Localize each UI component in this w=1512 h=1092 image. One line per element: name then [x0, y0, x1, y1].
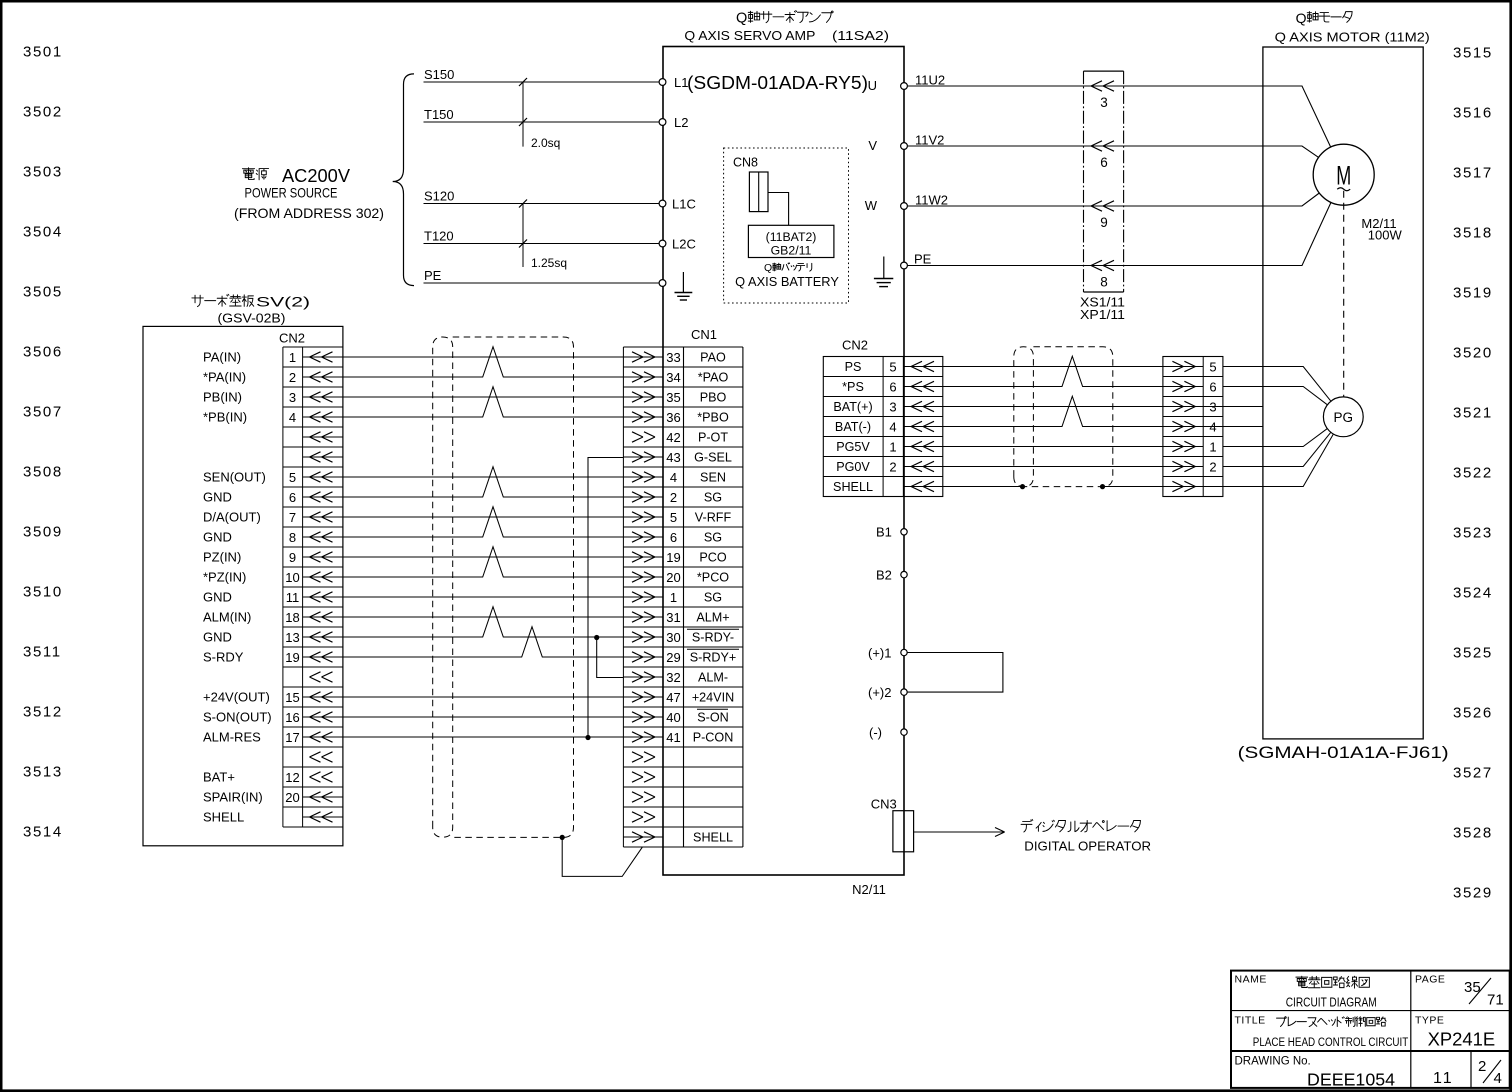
svg-text:DIGITAL OPERATOR: DIGITAL OPERATOR	[1024, 839, 1151, 854]
brace for power source wires	[393, 74, 414, 286]
svg-text:3513: 3513	[23, 764, 63, 781]
wire encoder 4 into motor	[1203, 426, 1263, 428]
wire D/A row	[343, 516, 624, 518]
wire W into motor	[1124, 193, 1320, 206]
svg-text:4: 4	[289, 410, 296, 425]
svg-text:3514: 3514	[23, 824, 63, 841]
svg-text:TYPE: TYPE	[1415, 1015, 1444, 1027]
svg-text:N2/11: N2/11	[852, 882, 886, 897]
terminal (-)	[869, 725, 907, 740]
svg-text:15: 15	[285, 690, 299, 705]
terminal B2	[876, 568, 907, 583]
wire GND/SG1 row	[343, 596, 624, 598]
svg-text:GB2/11: GB2/11	[771, 244, 812, 258]
svg-text:3: 3	[1100, 95, 1108, 110]
connector CN3	[871, 797, 914, 852]
svg-text:(-): (-)	[869, 725, 882, 740]
wire PG0V pin2 to encoder connector 2	[943, 466, 1163, 468]
svg-text:6: 6	[1100, 155, 1108, 170]
motor model (SGMAH-01A1A-FJ61)	[1238, 743, 1449, 762]
wire ALM- branch from GND row	[597, 638, 624, 678]
connector CN2 (encoder, servo side)	[823, 338, 943, 497]
battery dotted enclosure	[724, 148, 849, 303]
junction GND/ALM-	[594, 635, 599, 640]
terminal L2	[659, 115, 688, 130]
terminal PE / wire PE to connector XS1	[901, 252, 1084, 269]
wire ALM-RES/P-CON row	[343, 736, 624, 738]
svg-text:L2C: L2C	[672, 237, 696, 252]
wire S120 to servo amp	[424, 189, 660, 204]
svg-text:8: 8	[289, 530, 296, 545]
wire encoder 3 into motor	[1203, 406, 1263, 408]
wire SEN row	[343, 476, 624, 478]
svg-text:SG: SG	[704, 591, 722, 605]
svg-text:3: 3	[889, 399, 896, 414]
svg-text:BAT(+): BAT(+)	[833, 400, 872, 414]
svg-text:L2: L2	[674, 115, 688, 130]
svg-text:PG: PG	[1334, 410, 1354, 425]
wire S150 to servo amp	[424, 67, 660, 82]
title block	[1231, 971, 1510, 1090]
connector XS1/11-XP1/11	[1080, 71, 1125, 322]
svg-text:V-RFF: V-RFF	[695, 511, 732, 525]
terminal PE (power earth)	[659, 280, 666, 287]
wire shield to CN1 SHELL	[562, 837, 642, 876]
wire GND/SG row	[343, 507, 624, 537]
svg-text:3: 3	[289, 390, 296, 405]
node row labels 3501-3514 (left margin)	[23, 44, 63, 841]
svg-text:3507: 3507	[23, 404, 63, 421]
wire PZ row	[343, 556, 624, 558]
svg-text:+24V(OUT): +24V(OUT)	[203, 690, 270, 705]
svg-text:(FROM ADDRESS 302): (FROM ADDRESS 302)	[234, 205, 384, 221]
svg-text:36: 36	[666, 410, 680, 425]
svg-text:3522: 3522	[1453, 465, 1493, 482]
svg-text:SV(2): SV(2)	[256, 294, 310, 310]
svg-text:3511: 3511	[23, 644, 62, 661]
svg-text:1: 1	[289, 350, 296, 365]
svg-text:SEN(OUT): SEN(OUT)	[203, 470, 266, 485]
svg-text:1.25sq: 1.25sq	[531, 256, 567, 270]
svg-text:Q: Q	[1296, 10, 1307, 26]
svg-text:ALM-: ALM-	[698, 671, 728, 685]
wire CN8 to battery	[768, 193, 789, 226]
svg-text:6: 6	[1209, 379, 1216, 394]
wire PS pin5 to encoder connector 5	[943, 366, 1163, 368]
cable shield (encoder cable, dashed)	[1014, 347, 1113, 487]
svg-text:PBO: PBO	[700, 391, 727, 405]
wire +24V row	[343, 696, 624, 698]
svg-text:11: 11	[286, 590, 300, 605]
wire encoder shell into motor	[1203, 434, 1333, 487]
svg-text:3529: 3529	[1453, 885, 1493, 902]
wire BAT(+) pin3 to encoder connector 3	[943, 406, 1163, 408]
svg-text:11: 11	[1433, 1070, 1454, 1087]
shaft dashed link M to PG	[1343, 191, 1345, 397]
svg-text:3525: 3525	[1453, 645, 1493, 662]
svg-text:P-OT: P-OT	[698, 431, 728, 445]
svg-text:17: 17	[285, 730, 299, 745]
svg-text:3509: 3509	[23, 524, 63, 541]
svg-text:31: 31	[666, 610, 680, 625]
wire encoder 6 into motor	[1223, 387, 1328, 405]
svg-text:PAGE: PAGE	[1415, 974, 1445, 986]
svg-text:PG0V: PG0V	[836, 460, 870, 474]
svg-text:11V2: 11V2	[915, 133, 944, 148]
svg-text:3517: 3517	[1453, 165, 1493, 182]
svg-text:(11SA2): (11SA2)	[832, 29, 889, 43]
svg-text:Q AXIS BATTERY: Q AXIS BATTERY	[735, 275, 839, 289]
svg-text:PB(IN): PB(IN)	[203, 390, 242, 405]
svg-text:G-SEL: G-SEL	[694, 451, 732, 465]
svg-text:2: 2	[289, 370, 296, 385]
svg-text:T120: T120	[424, 229, 454, 244]
svg-text:33: 33	[666, 350, 680, 365]
svg-text:S-ON: S-ON	[697, 711, 728, 725]
svg-text:4: 4	[670, 470, 677, 485]
svg-text:42: 42	[666, 430, 680, 445]
ground (chassis, left)	[675, 272, 693, 300]
svg-text:SG: SG	[704, 531, 722, 545]
junction shield-right	[1100, 484, 1105, 489]
svg-text:3503: 3503	[23, 164, 63, 181]
wire ALM row	[343, 616, 624, 618]
wire G-SEL branch from P-CON	[588, 458, 623, 738]
svg-text:NAME: NAME	[1235, 974, 1267, 986]
encoder PG symbol	[1323, 397, 1363, 437]
wire encoder 1 into motor	[1223, 429, 1327, 447]
svg-text:SHELL: SHELL	[693, 831, 733, 845]
wire PE to servo amp	[424, 268, 660, 283]
svg-text:DRAWING No.: DRAWING No.	[1235, 1056, 1311, 1068]
svg-text:6: 6	[889, 379, 896, 394]
wire PB row	[343, 396, 624, 398]
svg-text:6: 6	[289, 490, 296, 505]
power source label AC200V	[234, 165, 384, 221]
svg-text:*PCO: *PCO	[697, 571, 729, 585]
svg-text:S-ON(OUT): S-ON(OUT)	[203, 710, 272, 725]
svg-text:CN1: CN1	[691, 327, 717, 342]
svg-text:11W2: 11W2	[915, 193, 948, 208]
svg-text:CN2: CN2	[842, 338, 868, 353]
svg-text:S150: S150	[424, 67, 454, 82]
svg-text:9: 9	[289, 550, 296, 565]
svg-text:3506: 3506	[23, 344, 63, 361]
svg-text:PG5V: PG5V	[836, 440, 870, 454]
svg-text:3526: 3526	[1453, 705, 1493, 722]
svg-text:29: 29	[666, 650, 680, 665]
svg-text:5: 5	[289, 470, 296, 485]
svg-text:L1C: L1C	[672, 197, 696, 212]
svg-text:1: 1	[889, 439, 896, 454]
wire BAT(-) pin4 to encoder connector 4 (twisted pair)	[943, 396, 1163, 426]
svg-text:PE: PE	[424, 268, 442, 283]
svg-text:1: 1	[670, 590, 677, 605]
terminal U / wire 11U2 to connector XS1	[868, 73, 1084, 94]
svg-text:CIRCUIT DIAGRAM: CIRCUIT DIAGRAM	[1286, 995, 1377, 1010]
svg-text:B1: B1	[876, 525, 892, 540]
svg-text:PLACE HEAD CONTROL CIRCUIT: PLACE HEAD CONTROL CIRCUIT	[1253, 1035, 1409, 1049]
svg-text:13: 13	[285, 630, 299, 645]
svg-text:3520: 3520	[1453, 345, 1493, 362]
connector CN2 (board side)	[203, 331, 343, 828]
svg-text:11U2: 11U2	[915, 73, 945, 88]
svg-text:3502: 3502	[23, 104, 63, 121]
svg-text:CN3: CN3	[871, 797, 897, 812]
svg-text:Q AXIS SERVO AMP: Q AXIS SERVO AMP	[684, 29, 815, 43]
svg-text:19: 19	[666, 550, 680, 565]
svg-text:T150: T150	[424, 107, 454, 122]
connector XS3/XP3 (encoder, motor side)	[1163, 357, 1223, 497]
wire T120 to servo amp	[424, 229, 660, 244]
connector CN8	[733, 156, 768, 212]
svg-text:2: 2	[889, 459, 896, 474]
svg-text:SHELL: SHELL	[833, 480, 873, 494]
wire *PA row	[343, 347, 624, 377]
svg-text:+24VIN: +24VIN	[692, 691, 734, 705]
wire PE into motor	[1124, 202, 1331, 265]
motor M1 symbol	[1313, 144, 1402, 242]
label Q axis battery	[735, 262, 839, 289]
svg-text:Q: Q	[736, 11, 747, 27]
wire *PZ row	[343, 547, 624, 577]
svg-text:71: 71	[1487, 992, 1504, 1009]
svg-text:8: 8	[1100, 275, 1108, 290]
terminal (+)2	[868, 685, 907, 700]
cable shield (I/O cable, dashed)	[433, 337, 574, 837]
svg-text:5: 5	[1209, 359, 1216, 374]
svg-text:3518: 3518	[1453, 225, 1493, 242]
svg-text:3501: 3501	[23, 44, 63, 61]
svg-text:3527: 3527	[1453, 765, 1493, 782]
wire PA row	[343, 356, 624, 358]
node row labels 3515-3529 (right margin)	[1453, 45, 1493, 902]
wire *PS pin6 to encoder connector 6 (twisted pair)	[943, 356, 1163, 386]
terminal L1C	[659, 197, 696, 212]
svg-text:43: 43	[666, 450, 680, 465]
svg-text:XP1/11: XP1/11	[1080, 307, 1125, 322]
terminal (+)1	[868, 646, 907, 661]
jumper wire (+)1 to (+)2	[907, 653, 1003, 693]
terminal L2C	[659, 237, 696, 252]
wire U into motor	[1124, 86, 1331, 147]
svg-text:16: 16	[285, 710, 299, 725]
svg-text:V: V	[868, 138, 877, 153]
svg-text:40: 40	[666, 710, 680, 725]
svg-text:2: 2	[1478, 1058, 1486, 1075]
svg-text:S120: S120	[424, 189, 454, 204]
svg-text:M: M	[1336, 161, 1351, 191]
svg-text:20: 20	[285, 790, 299, 805]
svg-text:34: 34	[666, 370, 680, 385]
net N2/11	[852, 882, 886, 897]
svg-text:Q: Q	[764, 262, 772, 274]
svg-text:4: 4	[1494, 1070, 1502, 1087]
svg-text:SG: SG	[704, 491, 722, 505]
svg-text:3504: 3504	[23, 224, 63, 241]
wire V into motor	[1124, 146, 1319, 157]
junction shield-left	[1020, 484, 1025, 489]
svg-text:BAT+: BAT+	[203, 770, 235, 785]
svg-text:PA(IN): PA(IN)	[203, 350, 241, 365]
svg-text:(SGMAH-01A1A-FJ61): (SGMAH-01A1A-FJ61)	[1238, 743, 1449, 762]
svg-text:3505: 3505	[23, 284, 63, 301]
svg-text:GND: GND	[203, 630, 232, 645]
wire *PB row	[343, 387, 624, 417]
svg-text:XP241E: XP241E	[1428, 1030, 1496, 1050]
svg-text:PAO: PAO	[700, 351, 726, 365]
wire PG5V pin1 to encoder connector 1	[943, 446, 1163, 448]
battery GB2/11 (11BAT2)	[748, 225, 834, 257]
ground (chassis, right)	[874, 257, 893, 287]
svg-text:PS: PS	[845, 360, 862, 374]
svg-text:PZ(IN): PZ(IN)	[203, 550, 241, 565]
wire encoder 2 into motor	[1223, 432, 1331, 466]
svg-text:PE: PE	[914, 252, 932, 267]
svg-text:GND: GND	[203, 530, 232, 545]
svg-text:32: 32	[666, 670, 680, 685]
svg-text:W: W	[865, 198, 878, 213]
svg-text:ALM-RES: ALM-RES	[203, 730, 261, 745]
svg-text:5: 5	[889, 359, 896, 374]
svg-text:S-RDY+: S-RDY+	[690, 651, 737, 665]
svg-text:18: 18	[285, 610, 299, 625]
svg-text:*PS: *PS	[842, 380, 864, 394]
wire size label 2.0sq	[519, 78, 560, 150]
svg-text:BAT(-): BAT(-)	[835, 420, 871, 434]
svg-text:100W: 100W	[1368, 228, 1403, 243]
svg-text:ALM(IN): ALM(IN)	[203, 610, 251, 625]
svg-text:2: 2	[670, 490, 677, 505]
label Q axis motor	[1275, 10, 1430, 45]
svg-text:3523: 3523	[1453, 525, 1493, 542]
junction G-SEL/P-CON	[585, 735, 590, 740]
svg-text:3516: 3516	[1453, 105, 1493, 122]
svg-text:(SGDM-01ADA-RY5): (SGDM-01ADA-RY5)	[687, 72, 868, 93]
svg-text:2.0sq: 2.0sq	[531, 136, 560, 150]
svg-text:SPAIR(IN): SPAIR(IN)	[203, 790, 263, 805]
svg-text:PCO: PCO	[699, 551, 726, 565]
svg-text:U: U	[868, 78, 877, 93]
svg-text:2: 2	[1209, 459, 1216, 474]
svg-text:9: 9	[1100, 215, 1108, 230]
svg-text:20: 20	[666, 570, 680, 585]
svg-text:GND: GND	[203, 590, 232, 605]
svg-text:5: 5	[670, 510, 677, 525]
svg-text:(GSV-02B): (GSV-02B)	[218, 311, 286, 326]
svg-text:3512: 3512	[23, 704, 63, 721]
svg-text:B2: B2	[876, 568, 892, 583]
svg-text:7: 7	[289, 510, 296, 525]
svg-text:*PA(IN): *PA(IN)	[203, 370, 246, 385]
wire size label 1.25sq	[519, 200, 567, 271]
svg-text:TITLE: TITLE	[1235, 1015, 1266, 1027]
svg-text:3528: 3528	[1453, 825, 1493, 842]
svg-text:CN2: CN2	[279, 331, 305, 346]
svg-text:S-RDY: S-RDY	[203, 650, 244, 665]
wire S-ON row	[343, 716, 624, 718]
connector CN1 (servo amp side)	[623, 327, 743, 847]
svg-text:CN8: CN8	[733, 156, 758, 170]
terminal L1	[659, 75, 688, 90]
svg-text:35: 35	[666, 390, 680, 405]
svg-text:L1: L1	[674, 75, 688, 90]
servo amplifier 11SA2 box	[663, 47, 904, 876]
svg-text:(+)1: (+)1	[868, 646, 891, 661]
wire CN3 to digital operator	[914, 819, 1152, 853]
svg-text:6: 6	[670, 530, 677, 545]
svg-text:AC200V: AC200V	[282, 165, 351, 186]
wire GND/S-RDY- row	[343, 607, 624, 637]
svg-text:3521: 3521	[1453, 405, 1493, 422]
svg-text:Q AXIS MOTOR (11M2): Q AXIS MOTOR (11M2)	[1275, 31, 1430, 45]
svg-text:*PB(IN): *PB(IN)	[203, 410, 247, 425]
junction shield to SHELL	[560, 835, 565, 840]
wire S-RDY/S-RDY+ row	[343, 627, 624, 657]
svg-text:3524: 3524	[1453, 585, 1493, 602]
servo amp model (SGDM-01ADA-RY5)	[687, 72, 868, 93]
servo board SV(2) (GSV-02B) box	[143, 294, 343, 846]
wire GND/SG row	[343, 467, 624, 497]
svg-text:D/A(OUT): D/A(OUT)	[203, 510, 261, 525]
svg-text:47: 47	[666, 690, 680, 705]
svg-text:3519: 3519	[1453, 285, 1493, 302]
svg-text:*PZ(IN): *PZ(IN)	[203, 570, 246, 585]
svg-text:*PBO: *PBO	[697, 411, 729, 425]
svg-text:41: 41	[666, 730, 680, 745]
svg-text:(11BAT2): (11BAT2)	[766, 230, 817, 244]
svg-text:(+)2: (+)2	[868, 685, 891, 700]
svg-text:30: 30	[666, 630, 680, 645]
Q axis motor 11M2 box	[1263, 47, 1423, 739]
svg-text:3515: 3515	[1453, 45, 1493, 62]
wire SHELL to encoder connector shell	[943, 486, 1163, 488]
svg-text:GND: GND	[203, 490, 232, 505]
svg-text:19: 19	[285, 650, 299, 665]
wire encoder 5 into motor	[1223, 367, 1331, 402]
terminal V / wire 11V2 to connector XS1	[868, 133, 1083, 154]
svg-text:12: 12	[285, 770, 299, 785]
svg-text:10: 10	[285, 570, 299, 585]
wire T150 to servo amp	[424, 107, 660, 122]
svg-text:3508: 3508	[23, 464, 63, 481]
svg-text:3510: 3510	[23, 584, 63, 601]
svg-text:POWER SOURCE: POWER SOURCE	[245, 185, 338, 201]
svg-text:ALM+: ALM+	[696, 611, 729, 625]
terminal W / wire 11W2 to connector XS1	[865, 193, 1084, 214]
svg-text:SEN: SEN	[700, 471, 726, 485]
svg-text:DEEE1054: DEEE1054	[1307, 1070, 1395, 1090]
svg-text:P-CON: P-CON	[693, 731, 734, 745]
svg-text:1: 1	[1209, 439, 1216, 454]
label Q axis servo amp	[684, 11, 889, 44]
svg-text:SHELL: SHELL	[203, 810, 244, 825]
svg-text:S-RDY-: S-RDY-	[692, 631, 734, 645]
svg-text:4: 4	[889, 419, 896, 434]
svg-text:*PAO: *PAO	[698, 371, 729, 385]
terminal B1	[876, 525, 907, 540]
